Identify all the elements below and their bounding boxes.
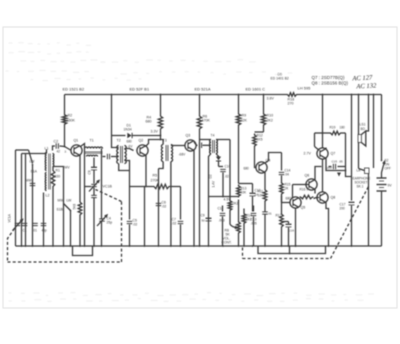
svg-text:L2: L2: [46, 194, 50, 198]
wire left rail 2b: [25, 154, 27, 247]
svg-text:ED 52F B1: ED 52F B1: [130, 87, 150, 92]
label MW: [26, 179, 33, 183]
label MV: [65, 166, 71, 170]
wire VC1A stub: [0, 0, 2, 2]
svg-text:T1: T1: [90, 139, 94, 143]
transformer T2: [117, 139, 133, 164]
label LH 595: [298, 86, 312, 91]
variable capacitor VC1A: [8, 213, 23, 230]
capacitor C17: [340, 94, 355, 246]
inductor L1: [45, 147, 49, 171]
label 3.8V: [267, 97, 275, 101]
resistor R18 in bus: [287, 93, 298, 106]
wire left rail 2: [21, 154, 23, 247]
wire C4 leads: [101, 158, 103, 247]
svg-text:5K6: 5K6: [73, 204, 77, 210]
svg-text:40p: 40p: [42, 229, 48, 233]
battery B1: [377, 173, 393, 247]
wire Q1 collector to T1: [81, 144, 85, 149]
svg-text:270: 270: [288, 102, 294, 106]
svg-text:Q8: Q8: [331, 196, 336, 200]
capacitor C8: [88, 158, 98, 184]
svg-text:10K: 10K: [258, 194, 265, 198]
resistor R5: [130, 174, 181, 189]
diode D2: [209, 156, 222, 188]
transistor Q3: [179, 134, 197, 157]
transformer T1: [85, 139, 103, 157]
svg-text:8Ω: 8Ω: [361, 127, 366, 131]
label 4.5V: [224, 198, 232, 202]
capacitor C3a: [32, 223, 38, 232]
resistor R14: [242, 209, 252, 247]
svg-text:R16: R16: [300, 188, 306, 192]
wire Q4 collector: [265, 153, 282, 164]
speaker LS1: [358, 123, 369, 169]
label Q8 type: [312, 81, 378, 91]
transistor Q5: [290, 197, 305, 210]
capacitor C7: [172, 187, 184, 247]
wire Q3 base: [171, 145, 185, 147]
svg-text:10K: 10K: [241, 191, 248, 195]
svg-text:-68V: -68V: [179, 153, 187, 157]
svg-text:D2: D2: [209, 174, 213, 178]
label ED 52F B1: [130, 87, 150, 92]
wire T3 legs: [159, 162, 171, 247]
svg-text:C2: C2: [54, 140, 59, 144]
svg-text:.003: .003: [219, 219, 225, 223]
svg-text:MW: MW: [26, 179, 33, 183]
diode D1: [112, 124, 162, 139]
wire detector down: [209, 196, 239, 198]
svg-text:Q8 : 2SB156 B(Q): Q8 : 2SB156 B(Q): [312, 81, 349, 86]
svg-text:MV: MV: [65, 166, 71, 170]
resistor R7: [228, 140, 238, 225]
svg-text:270K: 270K: [151, 179, 160, 183]
svg-text:T2: T2: [117, 139, 121, 143]
svg-text:.02: .02: [225, 175, 230, 179]
svg-text:.01: .01: [33, 229, 38, 233]
capacitor C14: [279, 153, 291, 182]
svg-text:R5: R5: [153, 174, 158, 178]
svg-text:9V: 9V: [388, 184, 393, 188]
svg-text:200: 200: [340, 207, 346, 211]
svg-text:C11: C11: [218, 207, 224, 211]
svg-text:.005: .005: [251, 222, 257, 226]
svg-text:C15: C15: [332, 160, 338, 164]
wire under-bus loop: [73, 246, 93, 256]
svg-text:-6V: -6V: [128, 145, 134, 149]
svg-text:.04: .04: [285, 173, 290, 177]
wire Q3 collector: [194, 142, 198, 145]
wire left rail 4: [43, 193, 45, 247]
svg-text:150K: 150K: [67, 119, 76, 123]
wire Q8 emitter: [326, 202, 329, 246]
svg-text:C9: C9: [201, 214, 205, 218]
variable capacitor VC1B: [89, 181, 112, 192]
resistor R15: [280, 182, 291, 213]
capacitor C5: [127, 171, 138, 247]
resistor R17: [276, 213, 284, 247]
capacitor MW tap: [30, 183, 36, 185]
wire R1 box: [53, 167, 64, 247]
svg-text:LH 595: LH 595: [298, 86, 312, 91]
svg-text:Q5: Q5: [301, 206, 306, 210]
svg-text:Q1: Q1: [74, 139, 79, 143]
capacitor C15: [327, 160, 346, 171]
svg-text:S1B: S1B: [57, 208, 64, 212]
svg-text:Q2: Q2: [139, 139, 144, 143]
svg-text:T3: T3: [163, 139, 167, 143]
svg-text:ED 1521 B2: ED 1521 B2: [63, 87, 85, 92]
wire T2 top: [111, 94, 119, 148]
wire Q6 links: [293, 167, 322, 199]
transistor Q6: [305, 174, 318, 191]
resistor R1: [51, 169, 60, 189]
potentiometer R8: [222, 200, 241, 247]
resistor R13: [237, 184, 253, 198]
resistor R19 loop: [315, 126, 346, 167]
capacitor C11: [218, 206, 226, 247]
svg-text:S1A: S1A: [31, 170, 38, 174]
ferrite core: [49, 154, 51, 190]
svg-text:1N34: 1N34: [124, 128, 132, 132]
transformer T4: [210, 134, 218, 154]
svg-text:470K: 470K: [202, 119, 211, 123]
svg-text:ED 1401 B2: ED 1401 B2: [271, 77, 289, 81]
svg-text:.02: .02: [162, 205, 167, 209]
svg-text:3.8V: 3.8V: [267, 97, 275, 101]
svg-text:ED 521A: ED 521A: [195, 87, 211, 92]
wire Q8 base: [314, 198, 320, 199]
svg-text:OFF: OFF: [385, 167, 391, 171]
transistor Q7: [304, 148, 336, 159]
svg-text:R10: R10: [267, 114, 274, 118]
svg-text:Q6: Q6: [305, 174, 310, 178]
wire under-bus loop 2: [258, 246, 326, 254]
svg-text:1.4V: 1.4V: [212, 180, 216, 187]
inductor L2: [45, 173, 49, 198]
svg-text:SK.1: SK.1: [357, 185, 364, 189]
svg-text:.01: .01: [268, 212, 273, 216]
wire Q8 collector: [322, 159, 324, 192]
resistor R4: [146, 94, 163, 140]
switch S2: [381, 95, 391, 173]
label ED1521 B2: [63, 87, 85, 92]
svg-text:680: 680: [146, 120, 152, 124]
wire T2 sec: [124, 149, 133, 171]
capacitor C1: [22, 223, 28, 232]
svg-text:1K5: 1K5: [257, 138, 263, 142]
wire C2 to Q1: [60, 146, 71, 154]
svg-text:Q3: Q3: [186, 134, 191, 138]
capacitor C16: [282, 222, 295, 247]
svg-text:680: 680: [127, 140, 133, 144]
svg-text:VC1B: VC1B: [103, 185, 113, 189]
wire speaker rails: [358, 94, 370, 135]
svg-text:LW: LW: [30, 160, 36, 164]
resistor R16: [300, 188, 314, 199]
label Q7 type: [312, 74, 374, 82]
svg-text:2K2: 2K2: [233, 202, 239, 206]
wire earphone to battery: [368, 197, 370, 247]
svg-text:2.: 2.: [65, 150, 68, 154]
wire Q3 emitter: [193, 150, 195, 246]
capacitor C18: [262, 212, 272, 216]
wire T1 left leg: [85, 149, 92, 247]
wire left rail 1: [15, 150, 17, 246]
inductor L1 secondary: [53, 154, 54, 167]
transistor Q4: [244, 159, 271, 174]
svg-text:CONT.: CONT.: [222, 241, 232, 245]
diode D3: [337, 167, 346, 177]
svg-text:2K2: 2K2: [267, 119, 273, 123]
capacitor C2: [54, 140, 61, 154]
svg-text:C8: C8: [88, 170, 92, 174]
wire T1 right leg: [101, 149, 103, 158]
dashed S2 link: [243, 187, 369, 259]
earphone socket SK1: [346, 168, 371, 197]
switch S1B: [57, 199, 73, 214]
svg-text:.05: .05: [339, 160, 344, 164]
svg-text:.02: .02: [133, 223, 138, 227]
svg-text:C1: C1: [23, 229, 27, 233]
capacitor C10: [219, 165, 231, 197]
svg-text:25V: 25V: [327, 166, 332, 170]
transformer T3: [161, 139, 172, 162]
capacitor C3b: [41, 223, 47, 232]
resistor R6: [197, 94, 210, 246]
resistor R2: [62, 95, 75, 147]
dashed tuning gang link: [8, 190, 122, 263]
wire Q1 emitter: [79, 155, 81, 201]
svg-text:R9: R9: [242, 114, 247, 118]
wire T2 bottom: [119, 164, 130, 171]
svg-text:Q7 : 2SD77B(Q): Q7 : 2SD77B(Q): [312, 75, 346, 80]
svg-text:LS1: LS1: [360, 123, 366, 127]
svg-text:R17: R17: [276, 214, 282, 218]
svg-text:50: 50: [202, 219, 206, 223]
wire S1B below: [64, 204, 71, 247]
wire T4 legs: [200, 140, 231, 247]
svg-text:680: 680: [244, 167, 250, 171]
switch S1A: [16, 150, 38, 174]
capacitor Q3-T4: [199, 143, 211, 149]
wire Q5 base: [282, 196, 290, 203]
svg-text:LW: LW: [67, 199, 73, 203]
svg-text:3.3V: 3.3V: [151, 130, 159, 134]
wire Q5 collector top: [300, 197, 302, 200]
svg-text:25p: 25p: [107, 221, 113, 225]
capacitor T1-T2: [103, 154, 119, 160]
wire Q7 collector: [322, 94, 324, 134]
wire earphone contact: [373, 94, 375, 168]
resistor R11: [258, 189, 267, 247]
label D5 ED1401 B2: [271, 73, 289, 81]
label ED 1601 C: [246, 87, 266, 92]
svg-text:AC 127: AC 127: [351, 74, 373, 82]
resistor R9: [236, 94, 247, 184]
svg-text:C16: C16: [289, 229, 295, 233]
svg-text:.02: .02: [172, 222, 177, 226]
svg-text:180: 180: [340, 126, 346, 130]
wire antenna link: [22, 153, 47, 155]
resistor R12: [253, 132, 264, 168]
capacitor C9: [201, 214, 212, 223]
wire top supply bus: [65, 94, 382, 96]
transistor Q2: [128, 139, 149, 157]
label 68ohm: [286, 197, 293, 201]
svg-text:22K: 22K: [241, 119, 248, 123]
svg-text:R2: R2: [68, 114, 73, 118]
svg-text:330: 330: [55, 175, 61, 179]
capacitor C12: [250, 184, 261, 212]
wire Q5 emitter: [295, 208, 297, 247]
wire Q2 collector: [146, 139, 163, 146]
wire L1 top: [47, 146, 56, 154]
wire bottom bus: [16, 245, 382, 247]
wire left rail 3: [32, 165, 34, 247]
svg-text:2.7V: 2.7V: [304, 152, 312, 156]
capacitor C6: [156, 201, 167, 209]
svg-text:T4: T4: [211, 134, 215, 138]
svg-text:42: 42: [57, 150, 61, 154]
svg-text:ED 1601 C: ED 1601 C: [246, 87, 266, 92]
trimmer C4: [97, 215, 112, 226]
svg-text:AC 132: AC 132: [355, 82, 377, 90]
transistor Q8: [317, 192, 335, 203]
resistor R10: [261, 94, 273, 132]
svg-text:Q7: Q7: [331, 152, 336, 156]
ghost bleed-through texture: [6, 42, 375, 302]
wire Q2 emitter: [145, 155, 147, 246]
capacitor C13: [251, 206, 257, 247]
svg-text:R1: R1: [56, 169, 60, 173]
transistor Q1: [71, 139, 82, 157]
capacitor C3c: [91, 188, 97, 247]
label ED 521A: [195, 87, 211, 92]
bottom bus junctions: [21, 245, 353, 247]
wire Q7 chain: [322, 132, 346, 170]
resistor R3: [73, 201, 82, 247]
svg-text:R19: R19: [330, 126, 336, 130]
wire Q4 emitter: [264, 172, 266, 189]
svg-text:VC1A: VC1A: [8, 213, 12, 222]
